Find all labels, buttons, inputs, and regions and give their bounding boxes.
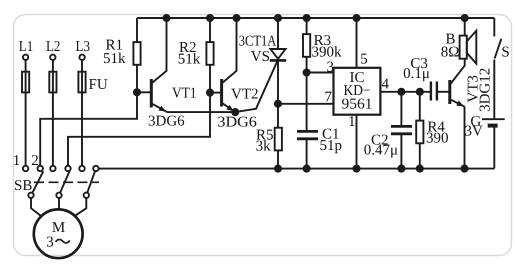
thyristor VS 3CT1A — [239, 18, 286, 104]
svg-text:1: 1 — [13, 153, 21, 169]
svg-text:0.1μ: 0.1μ — [403, 66, 430, 82]
svg-text:0.47μ: 0.47μ — [364, 142, 398, 158]
IC U1 KD-9561 — [334, 68, 381, 115]
svg-text:3CT1A: 3CT1A — [239, 33, 277, 49]
svg-text:5: 5 — [360, 51, 368, 67]
svg-text:VT1: VT1 — [172, 86, 197, 102]
node SB fixed contact 3 — [50, 166, 55, 171]
wire IC pin 3 line — [307, 72, 334, 74]
wire phase C tap to VT2 stage (contact 4 up to VT2 base) — [68, 93, 210, 166]
node speaker on top bus — [462, 15, 468, 21]
wire bottom ground bus — [99, 168, 495, 170]
svg-text:L1: L1 — [19, 39, 34, 55]
fuse FU2 — [49, 72, 56, 93]
node C1 on bottom bus — [304, 166, 310, 172]
svg-text:3DG6: 3DG6 — [217, 114, 257, 130]
capacitor C1 51p — [297, 126, 342, 168]
wire top supply bus — [137, 17, 494, 19]
transistor VT2 3DG6 — [210, 18, 259, 130]
svg-text:VS: VS — [251, 49, 270, 65]
svg-text:4: 4 — [382, 76, 390, 92]
node C2 on bottom bus — [398, 166, 404, 172]
node SB fixed contact 5 — [79, 166, 84, 171]
node R2/VT2 base junction — [207, 90, 213, 96]
svg-text:3DG12: 3DG12 — [478, 68, 494, 112]
resistor R3 — [303, 18, 342, 73]
svg-text:SB: SB — [14, 178, 32, 194]
wire L1 line — [25, 60, 27, 166]
node C2 on pin4 line — [398, 89, 404, 95]
svg-text:FU: FU — [89, 77, 108, 93]
svg-text:7: 7 — [325, 90, 333, 106]
node VT1 collector on top bus — [163, 15, 169, 21]
svg-text:1: 1 — [348, 114, 356, 130]
node VS anode on top bus — [275, 15, 281, 21]
fuse FU3 — [78, 72, 85, 93]
wire motor feed middle — [58, 198, 60, 209]
node SB pole 3 — [84, 193, 89, 198]
switch SB blade 3 — [87, 171, 95, 193]
wire phase B tap to VT1 stage (contact 2 up to R1 foot) — [40, 92, 137, 166]
fuse FU1 — [22, 72, 29, 93]
node VT3 emitter on bottom bus — [461, 166, 467, 172]
capacitor C2 0.47u — [364, 92, 412, 169]
node SB fixed contact 1 — [23, 166, 28, 171]
svg-text:390: 390 — [426, 131, 449, 147]
wire L2 line — [52, 60, 54, 166]
node SB fixed contact 4 — [65, 166, 70, 171]
wire IC pin 5 line — [356, 18, 358, 68]
svg-text:51p: 51p — [320, 138, 343, 154]
svg-text:3DG6: 3DG6 — [148, 113, 185, 129]
wire IC pin 4 line — [380, 91, 431, 93]
speaker B 8ohm — [441, 18, 477, 64]
wire IC pin 7 line — [278, 103, 334, 105]
capacitor C3 0.1u — [403, 56, 449, 100]
node L2 terminal — [46, 39, 61, 60]
node R1/VT1 base junction — [134, 89, 140, 95]
node R3 / C1 / pin3 junction — [304, 69, 310, 75]
resistor R4 — [416, 92, 448, 169]
svg-text:51k: 51k — [178, 52, 201, 68]
node SB fixed contact 2 — [38, 166, 43, 171]
transistor VT3 3DG12 — [450, 59, 494, 169]
node L1 terminal — [19, 39, 34, 60]
node SB pole 1 — [28, 193, 33, 198]
switch SB blade 2 — [60, 171, 70, 193]
wire L3 line — [81, 60, 83, 166]
svg-text:9561: 9561 — [342, 97, 373, 113]
node R3 on top bus — [304, 15, 310, 21]
resistor R1 — [103, 18, 141, 92]
switch SB coupling dashed line — [34, 181, 99, 183]
resistor R5 — [256, 104, 282, 169]
node pin5 on top bus — [353, 15, 359, 21]
node VT1/VT2 emitter junction — [232, 109, 238, 115]
wire IC pin 1 line — [356, 115, 358, 169]
switch SB blade 1 — [32, 171, 43, 193]
battery G 3V — [465, 114, 505, 169]
transistor VT1 3DG6 — [137, 18, 197, 129]
wire emitter junction to VS gate — [235, 61, 277, 112]
node VS cathode / R5 / pin7 junction — [275, 101, 281, 107]
motor M 3-phase — [34, 209, 83, 258]
wire VT1 emitter to VT2 emitter junction — [167, 111, 235, 113]
resistor R2 — [178, 18, 214, 93]
svg-text:L3: L3 — [76, 39, 91, 55]
svg-text:M: M — [52, 220, 65, 236]
node pin1 on bottom bus — [353, 166, 359, 172]
wire motor feed left — [31, 198, 41, 216]
switch S — [494, 18, 509, 119]
svg-text:L2: L2 — [46, 39, 61, 55]
node SB fixed contact 6 — [93, 166, 98, 171]
node L3 terminal — [76, 39, 91, 60]
svg-text:8Ω: 8Ω — [441, 45, 460, 61]
svg-text:3: 3 — [46, 234, 54, 250]
node R4 on bottom bus — [417, 166, 423, 172]
node VT2 collector on top bus — [233, 15, 239, 21]
svg-text:S: S — [501, 45, 509, 61]
node R2 on top bus — [207, 15, 213, 21]
svg-text:3k: 3k — [256, 138, 272, 154]
node R5 on bottom bus — [275, 166, 281, 172]
wire motor feed right — [76, 198, 87, 215]
node R4 on pin4 line — [417, 89, 423, 95]
wire R3 down to C1 (crosses pin7 line) — [306, 73, 308, 132]
node SB pole 2 — [56, 193, 61, 198]
svg-text:390k: 390k — [312, 45, 343, 61]
svg-text:51k: 51k — [103, 51, 126, 67]
svg-text:3V: 3V — [465, 123, 484, 139]
svg-text:VT2: VT2 — [231, 86, 259, 102]
